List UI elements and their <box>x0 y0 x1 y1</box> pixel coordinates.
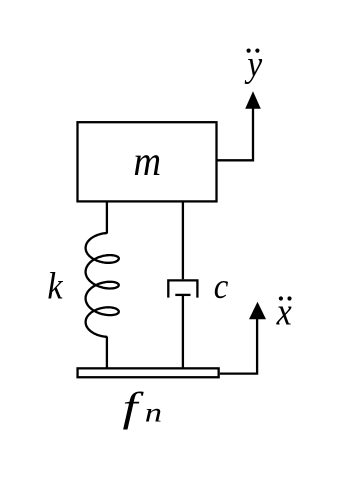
svg-text:f: f <box>123 384 144 430</box>
spring coil k <box>86 233 119 337</box>
wire: plate to x-arrow <box>220 316 257 374</box>
svg-text:c: c <box>214 267 229 307</box>
damper rod upper <box>182 201 184 279</box>
svg-text:k: k <box>47 264 63 306</box>
wire: mass to y-arrow <box>217 107 254 160</box>
svg-text:n: n <box>145 397 162 427</box>
arrowhead x-arrow <box>249 302 266 319</box>
base plate <box>78 368 219 377</box>
svg-text:x: x <box>276 289 292 333</box>
arrowhead y-arrow <box>245 91 261 109</box>
damper cup <box>168 280 197 297</box>
mass m body <box>78 122 217 201</box>
spring wire bottom <box>106 337 108 369</box>
dots of x-ddot <box>279 296 283 300</box>
svg-text:m: m <box>133 137 161 184</box>
spring wire top <box>106 201 108 234</box>
damper piston <box>175 294 190 296</box>
damper rod lower <box>182 295 184 368</box>
dots of y-ddot <box>247 49 251 53</box>
